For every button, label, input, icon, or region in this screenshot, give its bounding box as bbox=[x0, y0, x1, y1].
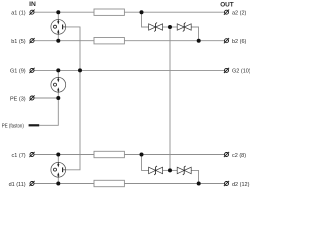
svg-text:d2 (12): d2 (12) bbox=[232, 182, 250, 188]
wire G1 to G2 bbox=[34, 69, 225, 71]
wire a1 line bbox=[34, 11, 94, 13]
terminal b2 bbox=[224, 38, 229, 43]
arrester F3 three-electrode bbox=[51, 162, 66, 177]
wire PE line bbox=[34, 97, 59, 99]
node diode mid cd bbox=[168, 168, 172, 172]
wire a1 box to a2 bbox=[124, 11, 224, 13]
terminal a2 bbox=[224, 10, 229, 15]
svg-text:b2 (6): b2 (6) bbox=[232, 39, 247, 45]
wire c-side diode branch bbox=[142, 155, 149, 171]
wire suppressor mid bus bbox=[169, 27, 171, 170]
svg-text:c2 (8): c2 (8) bbox=[232, 153, 246, 159]
resistor box c bbox=[94, 151, 124, 157]
suppressor diode V2 bbox=[177, 23, 191, 32]
svg-text:a1 (1): a1 (1) bbox=[11, 11, 26, 17]
node d-branch bbox=[197, 182, 201, 186]
terminal b1 bbox=[29, 38, 34, 43]
node PE-gdt bbox=[56, 96, 60, 100]
wire b1 line bbox=[34, 40, 94, 42]
svg-text:G2 (10): G2 (10) bbox=[232, 69, 250, 75]
resistor box d bbox=[94, 180, 124, 186]
terminal a1 bbox=[29, 10, 34, 15]
wire d-side diode branch bbox=[191, 170, 198, 183]
wire c1 line bbox=[34, 154, 94, 156]
wire a-side diode branch bbox=[142, 12, 149, 27]
suppressor diode V4 bbox=[177, 166, 191, 175]
wire faston to PE node bbox=[39, 98, 58, 125]
svg-text:OUT: OUT bbox=[220, 1, 234, 8]
node a1-gdt bbox=[56, 10, 60, 14]
svg-text:PE (3): PE (3) bbox=[10, 96, 26, 102]
svg-text:c1 (7): c1 (7) bbox=[12, 153, 26, 159]
arrester F1 three-electrode bbox=[51, 20, 66, 35]
node b-branch bbox=[197, 39, 201, 43]
wire b-side diode branch bbox=[191, 27, 198, 41]
terminal d2 bbox=[224, 181, 229, 186]
wire GDT1 bottom stub bbox=[57, 34, 59, 41]
svg-text:a2 (2): a2 (2) bbox=[232, 11, 247, 17]
terminal d1 bbox=[29, 181, 34, 186]
node c-branch bbox=[140, 153, 144, 157]
wire between diodes c/d bbox=[163, 169, 178, 171]
terminal G1 bbox=[29, 68, 34, 73]
node G-bus bbox=[78, 68, 82, 72]
node G1-gdt bbox=[56, 68, 60, 72]
resistor box b bbox=[94, 38, 124, 44]
node b1-gdt bbox=[56, 39, 60, 43]
wire GDT1 top stub bbox=[57, 12, 59, 19]
wire d1 line bbox=[34, 183, 94, 185]
terminal PE faston tab bbox=[29, 124, 40, 126]
wire GDT2 bottom stub bbox=[57, 92, 59, 98]
wire d1 box to d2 bbox=[124, 183, 224, 185]
terminal c1 bbox=[29, 152, 34, 157]
arrester F2 two-electrode bbox=[51, 77, 66, 92]
terminal PE bbox=[29, 95, 34, 100]
svg-text:G1 (9): G1 (9) bbox=[10, 69, 26, 75]
node c1-gdt bbox=[56, 153, 60, 157]
wire GDT2 top stub bbox=[57, 70, 59, 77]
suppressor diode V1 bbox=[149, 23, 163, 32]
suppressor diode V3 bbox=[149, 166, 163, 175]
node a-branch bbox=[140, 10, 144, 14]
svg-text:IN: IN bbox=[29, 1, 36, 8]
node diode mid ab bbox=[168, 25, 172, 29]
resistor box a bbox=[94, 9, 124, 15]
svg-text:d1 (11): d1 (11) bbox=[9, 182, 26, 188]
wire ground bus left bbox=[66, 27, 80, 170]
wire GDT3 top stub bbox=[57, 155, 59, 163]
svg-text:PE (faston): PE (faston) bbox=[2, 123, 24, 129]
terminal c2 bbox=[224, 152, 229, 157]
node d1-gdt bbox=[56, 182, 60, 186]
wire GDT3 bottom stub bbox=[57, 177, 59, 183]
terminal G2 bbox=[224, 68, 229, 73]
wire c1 box to c2 bbox=[124, 154, 224, 156]
wire b1 box to b2 bbox=[124, 40, 224, 42]
wire between diodes a/b bbox=[163, 26, 178, 28]
svg-text:b1 (5): b1 (5) bbox=[11, 39, 26, 45]
